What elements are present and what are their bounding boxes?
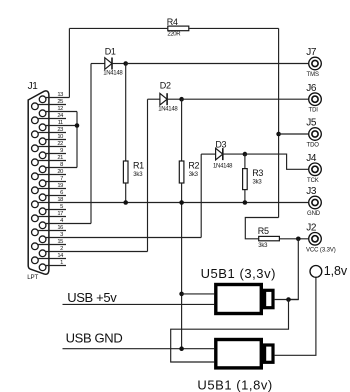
J1 pin 9 — [39, 148, 66, 159]
svg-text:D1: D1 — [105, 47, 116, 57]
J1 pin 16 — [32, 225, 66, 236]
svg-text:3k3: 3k3 — [189, 172, 199, 178]
regulator U5B1 (1,8v) — [197, 340, 273, 392]
connector J4 TCK — [306, 153, 321, 184]
wire: TDO to J5 — [279, 133, 309, 135]
wire: R2 to GND line and down to USB GND — [181, 183, 183, 349]
wire: pin 3 up to D3 anode — [200, 154, 202, 237]
J1 pin 7 — [39, 176, 66, 187]
J1 pin 17 — [32, 211, 66, 222]
svg-text:TDI: TDI — [309, 108, 319, 114]
wire: D1 cathode to TMS node — [112, 63, 126, 65]
node 1,8v output circle — [310, 264, 348, 278]
wire: R4 to TDO drop — [189, 27, 278, 29]
svg-text:21: 21 — [57, 155, 63, 161]
svg-text:3k3: 3k3 — [258, 243, 268, 249]
svg-text:R4: R4 — [167, 17, 178, 27]
wire: bracket joining pins 12, 11, 8 — [76, 112, 78, 168]
svg-text:TDO: TDO — [307, 143, 320, 149]
svg-text:1N4148: 1N4148 — [103, 71, 123, 77]
J1 pin 3 — [39, 232, 201, 243]
svg-text:1,8v: 1,8v — [324, 264, 348, 278]
svg-text:1N4148: 1N4148 — [213, 164, 233, 170]
svg-text:11: 11 — [58, 120, 63, 126]
wire: GND to 3.3v regulator top pin — [182, 293, 215, 295]
J1 pin 2 — [39, 246, 147, 257]
diode D2 1N4148 — [158, 80, 178, 112]
wire: TDO vertical drop — [278, 28, 280, 217]
svg-text:R1: R1 — [133, 161, 144, 171]
resistor R1 3k3 — [123, 161, 144, 184]
connector J7 TMS — [306, 47, 321, 78]
svg-text:J6: J6 — [306, 83, 317, 94]
svg-text:J7: J7 — [306, 47, 317, 58]
svg-text:16: 16 — [57, 225, 63, 231]
svg-text:15: 15 — [57, 239, 63, 245]
svg-text:8: 8 — [60, 162, 63, 168]
connector J3 GND — [306, 186, 321, 217]
junction R2/GND — [179, 200, 184, 205]
wire: R1 to GND line — [125, 183, 127, 203]
node TDI junction — [179, 97, 184, 102]
J1 pin 15 — [32, 239, 66, 250]
svg-text:USB +5v: USB +5v — [67, 290, 117, 305]
node TCK junction — [243, 152, 248, 157]
J1 pin 6 — [39, 190, 66, 201]
junction 3.3v output — [286, 297, 291, 302]
J1 pin 10 — [39, 134, 66, 145]
svg-text:J5: J5 — [306, 118, 317, 129]
svg-text:R5: R5 — [258, 226, 269, 236]
wire: TDI node down to R2 — [181, 99, 183, 161]
J1 pin 23 — [32, 127, 66, 138]
svg-text:TCK: TCK — [307, 178, 319, 184]
wire: R5 to VCC node — [280, 238, 308, 240]
junction R3/GND — [243, 200, 248, 205]
wire: 3.3v output down and to 1.8v reg input — [171, 300, 289, 363]
wire: 3.3v output — [275, 299, 299, 301]
node TDO junction — [276, 132, 281, 137]
wire: D3 cathode to TCK node — [223, 153, 245, 155]
node TMS junction — [123, 61, 128, 66]
svg-text:D3: D3 — [215, 140, 226, 150]
svg-text:3k3: 3k3 — [133, 172, 143, 178]
svg-text:J4: J4 — [306, 153, 317, 164]
svg-text:19: 19 — [57, 183, 63, 189]
svg-text:D2: D2 — [160, 80, 171, 90]
resistor R2 3k3 — [179, 161, 199, 184]
regulator U5B1 (3,3v) — [201, 266, 276, 314]
wire: pin 4 up to D1 anode — [90, 64, 92, 224]
wire: USB GND to 1.8v regulator — [63, 348, 215, 350]
wire: TDO loop down to R5 — [245, 218, 278, 239]
svg-text:3: 3 — [60, 232, 63, 238]
svg-text:U5B1 (1,8v): U5B1 (1,8v) — [197, 377, 272, 392]
diode D1 1N4148 — [103, 47, 123, 77]
J1 pin 11 — [39, 120, 77, 131]
svg-text:U5B1 (3,3v): U5B1 (3,3v) — [201, 266, 276, 281]
svg-text:3k3: 3k3 — [253, 180, 263, 186]
svg-text:25: 25 — [57, 99, 63, 105]
J1 pin 8 — [39, 162, 77, 173]
wire: top bus to R4 — [69, 27, 167, 29]
J1 pin 4 — [39, 218, 91, 229]
wire: J1 pin 13 up to top bus — [68, 28, 70, 97]
junction GND/regulator pin — [179, 292, 184, 297]
wire: TMS node down to R1 — [125, 64, 127, 162]
svg-text:7: 7 — [60, 176, 63, 182]
J1 pin 14 — [32, 253, 66, 264]
svg-text:9: 9 — [60, 148, 63, 154]
svg-text:USB GND: USB GND — [66, 331, 123, 346]
J1 pin 12 — [39, 106, 77, 117]
svg-text:13: 13 — [57, 92, 63, 98]
resistor R5 3k3 — [258, 226, 280, 249]
connector J5 TDO — [306, 118, 321, 149]
J1 pin 13 — [39, 92, 69, 103]
svg-text:18: 18 — [57, 197, 63, 203]
junction GND/USB GND — [179, 346, 184, 351]
svg-text:R2: R2 — [188, 161, 199, 171]
svg-text:6: 6 — [60, 190, 63, 196]
wire: TCK node down to R3 — [244, 154, 246, 169]
junction R1/GND — [123, 200, 128, 205]
J1 pin 24 — [32, 113, 66, 124]
svg-text:1N4148: 1N4148 — [158, 107, 178, 113]
wire: GND bus (pin 18 to J3) — [66, 202, 308, 204]
connector J6 TDI — [306, 83, 321, 114]
diode D3 1N4148 — [213, 140, 233, 170]
wire: D2 cathode to TDI node — [167, 98, 182, 100]
J1 pin 19 — [32, 183, 66, 194]
wire: TDI to J6 — [182, 98, 309, 100]
svg-text:22: 22 — [57, 141, 63, 147]
J1 pin 25 — [32, 99, 66, 110]
svg-text:12: 12 — [57, 106, 63, 112]
svg-text:10: 10 — [57, 134, 63, 140]
svg-text:J1: J1 — [28, 81, 39, 92]
J1 pin 21 — [32, 155, 66, 166]
J1 pin 22 — [32, 141, 66, 152]
svg-text:R3: R3 — [252, 168, 263, 178]
wire: TCK node to J4 — [245, 154, 308, 169]
svg-text:J3: J3 — [306, 186, 317, 197]
resistor R4 220R — [167, 17, 189, 38]
wire: TMS to J7 — [126, 63, 308, 65]
svg-text:LPT: LPT — [27, 274, 38, 281]
svg-text:1: 1 — [60, 260, 63, 266]
svg-text:17: 17 — [57, 211, 63, 217]
svg-text:5: 5 — [60, 204, 63, 210]
svg-text:20: 20 — [57, 169, 63, 175]
svg-text:TMS: TMS — [307, 72, 319, 78]
resistor R3 3k3 — [243, 168, 264, 190]
wire: USB +5v to 3.3v regulator input — [63, 303, 215, 305]
svg-text:J2: J2 — [306, 222, 317, 233]
node VCC junction at J2 — [296, 237, 301, 242]
J1 pin 1 — [39, 260, 66, 271]
connector J1 (DB25 LPT) outline — [28, 91, 49, 274]
junction pin 11 — [75, 123, 80, 128]
wire: pin 2 up to D2 anode — [147, 99, 149, 251]
wire: VCC down to 3.3v output — [289, 239, 299, 300]
connector J2 VCC 3.3V — [306, 222, 336, 253]
svg-text:220R: 220R — [167, 31, 181, 37]
wire: R3 to GND line — [244, 190, 246, 203]
J1 pin 18 — [32, 197, 66, 208]
svg-text:VCC (3.3V): VCC (3.3V) — [306, 247, 336, 253]
J1 pin 5 — [39, 204, 66, 215]
svg-text:23: 23 — [57, 127, 63, 133]
svg-text:2: 2 — [60, 246, 63, 252]
svg-text:GND: GND — [307, 211, 321, 217]
J1 pin 20 — [32, 169, 66, 180]
wire: 1.8v output to 1,8v node — [275, 277, 316, 355]
